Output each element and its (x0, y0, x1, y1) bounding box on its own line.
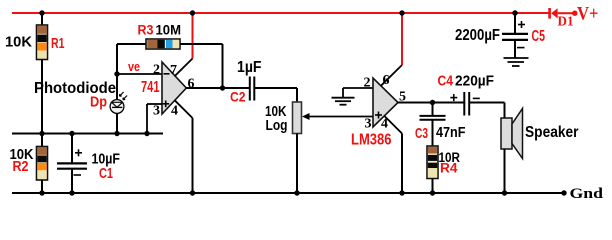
wire: 741 pin 2 input (117, 73, 169, 75)
svg-text:C2: C2 (230, 89, 246, 105)
junction: middle rail / 741 pin3 (144, 131, 149, 136)
junction: bottom rail / C1 (69, 190, 74, 195)
junction: bottom rail / R4 (430, 190, 435, 195)
svg-text:2200µF: 2200µF (455, 27, 500, 44)
node ve (741 inverting input) (114, 59, 140, 77)
svg-text:LM386: LM386 (351, 131, 392, 148)
photodiode Dp (34, 74, 127, 134)
ground symbol (C5) (504, 58, 529, 66)
junction: bottom rail / speaker (502, 190, 507, 195)
svg-text:2: 2 (153, 62, 160, 77)
junction: rail / 741 pin7 drop (190, 10, 195, 15)
svg-text:1µF: 1µF (237, 59, 262, 76)
svg-text:2: 2 (364, 75, 371, 90)
svg-text:4: 4 (171, 103, 178, 118)
svg-text:Log: Log (266, 118, 288, 134)
svg-text:V+: V+ (577, 3, 599, 24)
wire: red drop to 741 pin 7 (192, 13, 194, 59)
svg-text:C5: C5 (532, 28, 546, 45)
junction: bottom rail / 741 pin4 (190, 190, 195, 195)
wire: 741 pin 7 diagonal (175, 59, 193, 77)
junction: middle rail / C1 (69, 131, 74, 136)
svg-text:ve: ve (128, 59, 140, 74)
svg-text:5: 5 (399, 89, 406, 104)
wire: LM386 pin 6 diagonal (381, 65, 402, 86)
ground symbol (LM386 pin 2) (332, 88, 355, 105)
svg-text:R1: R1 (51, 35, 65, 52)
resistor R2 10K (10, 134, 48, 194)
diode D1 (548, 8, 573, 29)
wire: 741 pin 3 input stub (147, 104, 162, 134)
node Gnd terminal (561, 186, 603, 202)
svg-text:Speaker: Speaker (525, 124, 579, 141)
resistor R3 10M (feedback) (117, 22, 223, 88)
wire: LM386 output pin 5 (397, 102, 464, 104)
wire: C4 to speaker (469, 103, 504, 119)
wire: LM386 pin 2 input (343, 87, 380, 89)
capacitor C3 47nF (415, 103, 466, 147)
wire: C2 to potentiometer (254, 88, 297, 102)
junction: rail / R1 (39, 10, 44, 15)
op-amp U2 LM386 (351, 78, 398, 148)
capacitor C5 2200uF (455, 13, 545, 58)
potentiometer VR1 10K Log (265, 102, 302, 134)
svg-text:10K: 10K (5, 34, 32, 51)
junction: bottom rail / R2 (39, 190, 44, 195)
svg-text:220µF: 220µF (455, 72, 494, 89)
junction: middle rail / R1-R2 (39, 131, 44, 136)
svg-text:C1: C1 (99, 165, 113, 182)
node V+ terminal (572, 3, 598, 24)
svg-text:Dp: Dp (90, 94, 107, 111)
wire: red drop to LM386 pin 6 (401, 13, 403, 65)
svg-text:R2: R2 (13, 158, 29, 175)
svg-text:10M: 10M (156, 22, 182, 37)
svg-text:C3: C3 (415, 125, 428, 142)
wire: middle rail (photodiode / bias node) (12, 133, 163, 135)
junction: rail / C5 (512, 10, 517, 15)
capacitor C2 1uF (230, 59, 262, 105)
junction: bottom rail / LM386 pin4 (399, 190, 404, 195)
wire: V+ top rail (red) (12, 12, 549, 14)
op-amp U1 741 (141, 62, 186, 114)
svg-text:741: 741 (141, 79, 160, 96)
svg-text:D1: D1 (558, 14, 574, 29)
speaker LS1 (501, 109, 579, 194)
resistor R1 10K (5, 13, 65, 134)
wire: pot wiper to LM386 pin 3 (arrow) (302, 113, 373, 120)
svg-text:3: 3 (365, 116, 372, 131)
svg-text:Gnd: Gnd (570, 186, 604, 202)
svg-text:R3: R3 (138, 22, 154, 37)
svg-text:R4: R4 (440, 161, 458, 176)
junction: middle rail / photodiode (114, 131, 119, 136)
junction: bottom rail / pot (294, 190, 299, 195)
svg-text:C4: C4 (438, 72, 454, 89)
wire: 741 output pin 6 (186, 87, 249, 89)
capacitor C4 220uF (438, 72, 495, 115)
junction: rail / LM386 pin6 drop (399, 10, 404, 15)
junction: output / C3 (430, 100, 435, 105)
junction: output / feedback (220, 85, 225, 90)
svg-text:47nF: 47nF (436, 124, 466, 141)
wire: LM386 pin 4 to ground rail (384, 116, 402, 193)
capacitor C1 10uF (57, 134, 120, 194)
wire: ground bottom rail (12, 192, 564, 194)
wire: potentiometer bottom to ground rail (296, 134, 298, 194)
wire: 741 pin 4 to ground rail (175, 100, 193, 193)
resistor R4 10R (427, 146, 460, 193)
